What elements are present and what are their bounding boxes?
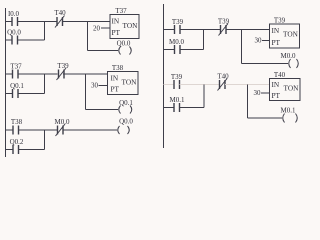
coil Q0.0 output rung3 [118,118,134,135]
coil branch vertical right rung2 [247,85,249,119]
contact Q0.2 [10,138,24,154]
wire to coil M0.1 [248,117,283,119]
parallel branch M0.0 vertical join [203,30,205,50]
svg-text:M0.0: M0.0 [55,118,70,126]
wire rung3 rail to contact [6,129,14,131]
NC contact M0.0 [55,118,70,136]
contact I0.0 [8,10,20,26]
svg-text:T39: T39 [172,18,184,26]
svg-text:T38: T38 [112,64,124,72]
PT preset 20 [93,25,110,33]
svg-text:PT: PT [272,91,281,100]
wire parallel branch rung1 [6,39,13,41]
svg-text:20: 20 [93,25,101,33]
svg-text:PT: PT [272,38,281,47]
contact Q0.1 [10,82,24,98]
wire parallel branch rung2 [6,93,13,95]
coil branch vertical rung1 [87,22,89,51]
svg-text:TON: TON [123,21,139,30]
svg-text:T40: T40 [274,71,286,79]
wire right rung2 rail to contact (faded in scan) [164,84,175,86]
coil M0.0 [281,52,299,68]
svg-text:M0.0: M0.0 [169,38,184,46]
coil M0.1 [281,107,298,123]
wire rung1 contact to NC [18,21,58,23]
NC contact T39 [57,62,70,80]
wire rung3 contact to NC [19,129,58,131]
svg-text:T39: T39 [57,62,69,70]
svg-text:30: 30 [255,37,263,45]
svg-text:30: 30 [254,89,262,97]
timer T38 TON box [108,64,139,95]
svg-text:Q0.0: Q0.0 [119,118,133,126]
PT preset 30 right rung2 [254,89,270,97]
wire right rung2 contact to NC (faded in scan) [180,84,220,86]
wire rung3 NC to coil [63,129,117,131]
wire to coil Q0.0 [88,50,119,52]
svg-text:Q0.0: Q0.0 [117,40,131,48]
contact M0.0 [169,38,184,54]
svg-text:T39: T39 [274,17,286,25]
svg-text:I0.0: I0.0 [8,10,20,18]
svg-text:T40: T40 [217,73,229,81]
svg-text:T39: T39 [171,73,183,81]
PT preset 30 [91,82,108,90]
contact T39 right rung2 [171,73,183,89]
timer T40 TON box [270,71,301,101]
contact T37 [10,63,22,79]
svg-text:TON: TON [283,30,299,39]
svg-text:PT: PT [112,28,121,37]
wire parallel branch right rung1 [164,49,175,51]
wire rung2 contact to NC [18,73,58,75]
svg-text:T38: T38 [11,118,23,126]
PT preset 30 right rung1 [255,37,270,45]
svg-text:IN: IN [112,17,120,26]
NC contact T40 [217,73,229,91]
svg-text:M0.1: M0.1 [170,96,185,104]
timer T37 TON box [110,7,139,39]
right power rail [163,4,165,148]
svg-text:Q0.0: Q0.0 [7,29,21,37]
wire right rung1 NC to timer box [226,29,270,31]
contact M0.1 [170,96,185,112]
svg-text:Q0.1: Q0.1 [119,99,133,107]
coil branch vertical rung2 [85,74,87,110]
contact Q0.0 [7,29,21,45]
parallel branch Q0.0 vertical join [44,22,46,41]
svg-text:Q0.1: Q0.1 [10,82,24,90]
contact T38 [11,118,23,135]
svg-text:IN: IN [111,74,119,83]
wire rung2 NC to timer box [63,73,108,75]
wire rung1 NC to timer box [63,21,111,23]
wire parallel branch right rung2 [164,107,175,109]
svg-text:Q0.2: Q0.2 [10,138,24,146]
coil Q0.1 [119,99,134,114]
svg-text:TON: TON [284,84,300,93]
wire rung2 rail to contact [6,73,13,75]
wire rung1 segment rail to contact [6,21,13,23]
svg-text:TON: TON [122,78,138,87]
svg-text:30: 30 [91,82,99,90]
wire right rung1 contact to NC [180,29,221,31]
parallel branch Q0.1 vertical join [44,74,46,94]
svg-text:M0.1: M0.1 [281,107,296,115]
wire right rung1 rail to contact [164,29,175,31]
wire parallel branch rung3 [6,149,14,151]
svg-text:T37: T37 [115,7,127,15]
svg-text:T39: T39 [218,18,230,26]
svg-text:IN: IN [272,80,280,89]
wire to coil Q0.1 [86,109,119,111]
svg-text:M0.0: M0.0 [281,52,296,60]
parallel branch M0.1 vertical join [203,85,205,108]
NC contact T40 [54,9,66,28]
contact T39 right rung1 [172,18,184,34]
timer T39 TON box [270,17,300,49]
wire right rung2 NC to timer box (faded in scan) [225,84,270,86]
wire to coil M0.0 [242,63,289,65]
svg-text:T40: T40 [54,9,66,17]
coil branch vertical right rung1 [241,30,243,64]
parallel branch Q0.2 vertical join [44,130,46,150]
coil Q0.0 [117,40,132,55]
svg-text:T37: T37 [10,63,22,71]
left power rail [5,8,7,157]
svg-text:PT: PT [111,85,120,94]
svg-text:IN: IN [272,26,280,35]
NC contact T39 [218,18,230,36]
